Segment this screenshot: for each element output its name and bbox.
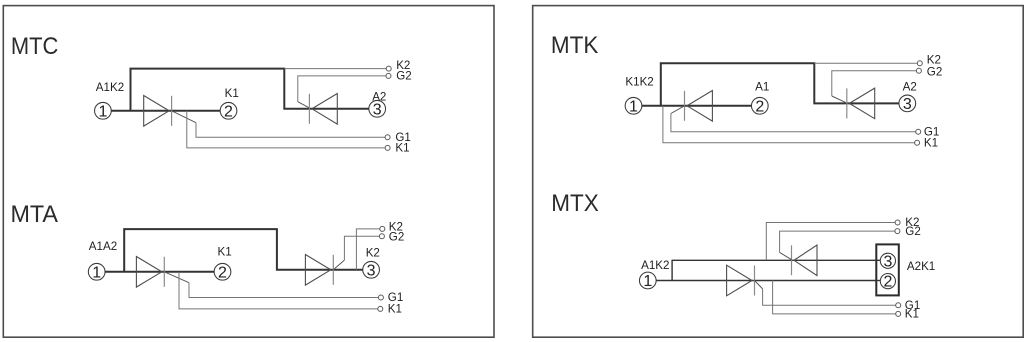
wire: MTX left riser and top rail to terminal block pin 3 <box>672 260 880 280</box>
wire: MTA cathode tap of U3 to K1 terminal <box>179 272 378 309</box>
terminal G1 (MTA) <box>378 295 383 300</box>
svg-text:2: 2 <box>883 274 892 291</box>
svg-text:1: 1 <box>92 264 101 281</box>
wire: MTK G2 lead to gate of U6 <box>832 71 917 96</box>
svg-text:A1K2: A1K2 <box>641 259 669 272</box>
svg-text:G2: G2 <box>396 69 411 82</box>
svg-text:K1: K1 <box>395 142 409 155</box>
wire: MTK cathode tap of U5 to K1 terminal <box>663 106 915 143</box>
terminal K1 (MTX) <box>896 311 901 316</box>
node 1 (MTX) circle <box>639 272 656 290</box>
svg-text:3: 3 <box>367 262 376 279</box>
wire: MTA gate of U3 to G1 terminal <box>164 272 189 283</box>
thyristor U2 (MTC right, pointing left) <box>309 94 337 125</box>
svg-text:A2K1: A2K1 <box>907 260 935 273</box>
wire: MTC gate of U1 to G1 terminal <box>172 111 196 123</box>
svg-text:3: 3 <box>373 101 382 118</box>
wire: MTK gate of U5 to G1 terminal <box>671 106 685 114</box>
svg-text:2: 2 <box>755 98 764 115</box>
svg-text:3: 3 <box>903 96 912 113</box>
wire: MTC cathode tap of U1 to K1 terminal <box>187 111 385 148</box>
wire: MTX G2 lead to gate of U8 <box>780 231 895 252</box>
terminal G2 (MTK) <box>916 68 921 73</box>
svg-text:MTK: MTK <box>551 32 599 59</box>
terminal block A2K1 (MTX pins 3 and 2) <box>876 244 899 295</box>
svg-text:K1K2: K1K2 <box>625 76 653 89</box>
wire: MTX gate of U7 to G1 terminal <box>755 281 763 289</box>
terminal K1 (MTA) <box>378 306 383 311</box>
thyristor U5 (MTK left, pointing left) <box>685 91 713 122</box>
wire: MTX bottom rail node1 to terminal block pin 2 <box>648 280 881 282</box>
wire: stub to pin 2 inside block <box>876 280 880 282</box>
svg-text:2: 2 <box>218 264 227 281</box>
terminal K2 (MTA) <box>380 226 385 231</box>
terminal K2 (MTX) <box>895 220 900 225</box>
thyristor U6 (MTK right, pointing left) <box>847 88 875 119</box>
wire: MTX cathode tap of U7 to K1 terminal <box>773 281 896 314</box>
svg-text:A2: A2 <box>372 91 386 104</box>
node 3 (MTA) circle <box>363 261 380 279</box>
svg-text:1: 1 <box>629 98 638 115</box>
wire: MTC K2 lead from loop corner <box>284 68 386 70</box>
wire: MTA main node1-node2 <box>97 271 215 273</box>
node 1 (MTK) circle <box>625 97 642 115</box>
wire: MTA anode loop (node1 junction up, across, down to thyristor U4 row) <box>124 229 363 272</box>
svg-text:G2: G2 <box>905 225 920 238</box>
terminal G2 (MTC) <box>386 73 391 78</box>
panel frame right (MTK / MTX) <box>533 6 1024 338</box>
terminal G2 (MTA) <box>379 234 384 239</box>
wire: MTC G2 lead to gate of U2 <box>298 76 386 102</box>
thyristor U1 (MTC left, pointing right) <box>144 96 172 127</box>
thyristor U7 (MTX bottom rail, pointing right) <box>727 265 755 296</box>
svg-text:K1: K1 <box>388 303 402 316</box>
node 3 (MTC) circle <box>369 100 386 118</box>
terminal K1 (MTK) <box>915 140 920 145</box>
wire: MTA cathode tap of U4 up to K2 terminal <box>356 229 379 270</box>
svg-text:2: 2 <box>224 103 233 120</box>
wire: MTK anode loop (node1 junction up, across, down to thyristor U6 row) <box>661 63 900 106</box>
wire: MTC anode loop (node1 junction up, across, down to thyristor U2 row) <box>131 69 370 111</box>
wire: MTC main node1-node2 <box>103 110 220 112</box>
wire: MTK K2 lead from loop corner <box>814 62 917 64</box>
thyristor U8 (MTX top rail, pointing left) <box>792 245 818 276</box>
node 1 (MTC) circle <box>95 102 112 120</box>
wire: MTX K2 lead from top rail <box>766 223 895 261</box>
terminal G1 (MTK) <box>916 129 921 134</box>
svg-text:MTC: MTC <box>11 33 59 60</box>
svg-text:A1A2: A1A2 <box>89 240 117 253</box>
thyristor U3 (MTA left, pointing right) <box>136 257 164 288</box>
terminal G1 (MTX) <box>896 303 901 308</box>
panel frame left (MTC / MTA) <box>3 6 494 338</box>
svg-text:K1: K1 <box>905 308 919 321</box>
svg-text:G2: G2 <box>389 231 404 244</box>
svg-text:MTX: MTX <box>551 190 599 217</box>
svg-text:1: 1 <box>643 273 652 290</box>
pin 3 (MTX block) circle <box>880 253 895 270</box>
svg-text:G2: G2 <box>927 65 942 78</box>
terminal G2 (MTX) <box>895 229 900 234</box>
terminal K2 (MTK) <box>917 61 922 66</box>
node 3 (MTK) circle <box>899 95 916 113</box>
svg-text:A2: A2 <box>903 81 917 94</box>
node 2 (MTA) circle <box>214 263 231 281</box>
svg-text:K1: K1 <box>924 137 938 150</box>
terminal K2 (MTC) <box>386 66 391 71</box>
wire: MTK main node1-node2 <box>634 105 753 107</box>
svg-text:3: 3 <box>883 253 892 270</box>
node 1 (MTA) circle <box>88 263 105 281</box>
svg-text:MTA: MTA <box>11 201 59 228</box>
node 2 (MTK) circle <box>751 97 768 115</box>
wire: MTA gate of U4 up to G2 terminal <box>333 260 344 270</box>
thyristor U4 (MTA right, pointing right) <box>305 255 333 286</box>
terminal K1 (MTC) <box>385 145 390 150</box>
svg-text:K1: K1 <box>225 87 239 100</box>
svg-text:1: 1 <box>98 103 107 120</box>
wire: stub to pin 3 inside block <box>876 259 880 261</box>
svg-text:K2: K2 <box>366 246 380 259</box>
node 2 (MTC) circle <box>220 102 237 120</box>
svg-text:K1: K1 <box>218 245 232 258</box>
terminal G1 (MTC) <box>385 135 390 140</box>
svg-text:A1K2: A1K2 <box>96 81 124 94</box>
pin 2 (MTX block) circle <box>880 274 895 291</box>
svg-text:A1: A1 <box>755 81 769 94</box>
